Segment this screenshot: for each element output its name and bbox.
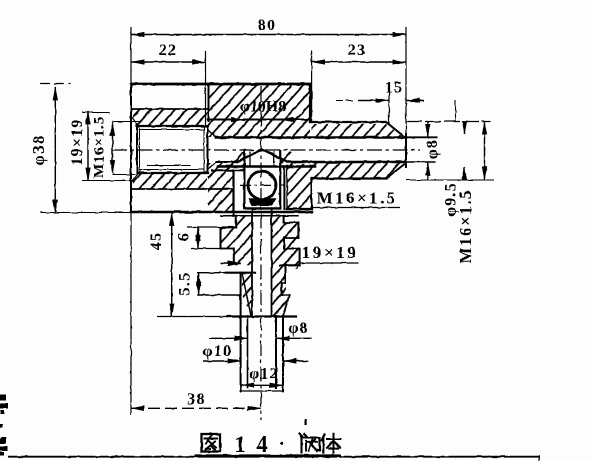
svg-text:6: 6 <box>176 232 193 241</box>
svg-text:5.5: 5.5 <box>177 272 194 296</box>
svg-text:22: 22 <box>159 42 177 59</box>
svg-text:φ8: φ8 <box>288 320 308 337</box>
svg-text:19×19: 19×19 <box>302 243 359 262</box>
svg-text:M16×1.5: M16×1.5 <box>92 116 108 178</box>
svg-text:φ10: φ10 <box>203 343 233 360</box>
svg-text:φ8: φ8 <box>424 139 441 159</box>
svg-text:M16×1.5: M16×1.5 <box>317 189 398 208</box>
svg-text:80: 80 <box>258 17 276 34</box>
svg-text:φ12: φ12 <box>249 366 279 383</box>
svg-text:23: 23 <box>348 42 366 59</box>
svg-text:15: 15 <box>385 80 403 97</box>
svg-text:1: 1 <box>234 432 246 457</box>
svg-text:·: · <box>279 433 286 455</box>
svg-text:38: 38 <box>187 391 205 408</box>
svg-text:4: 4 <box>256 432 268 457</box>
svg-text:φ10H8: φ10H8 <box>240 99 286 116</box>
svg-text:φ38: φ38 <box>29 134 48 165</box>
svg-text:M16×1.5: M16×1.5 <box>456 189 475 264</box>
svg-text:19×19: 19×19 <box>69 118 86 165</box>
svg-text:45: 45 <box>148 232 165 250</box>
